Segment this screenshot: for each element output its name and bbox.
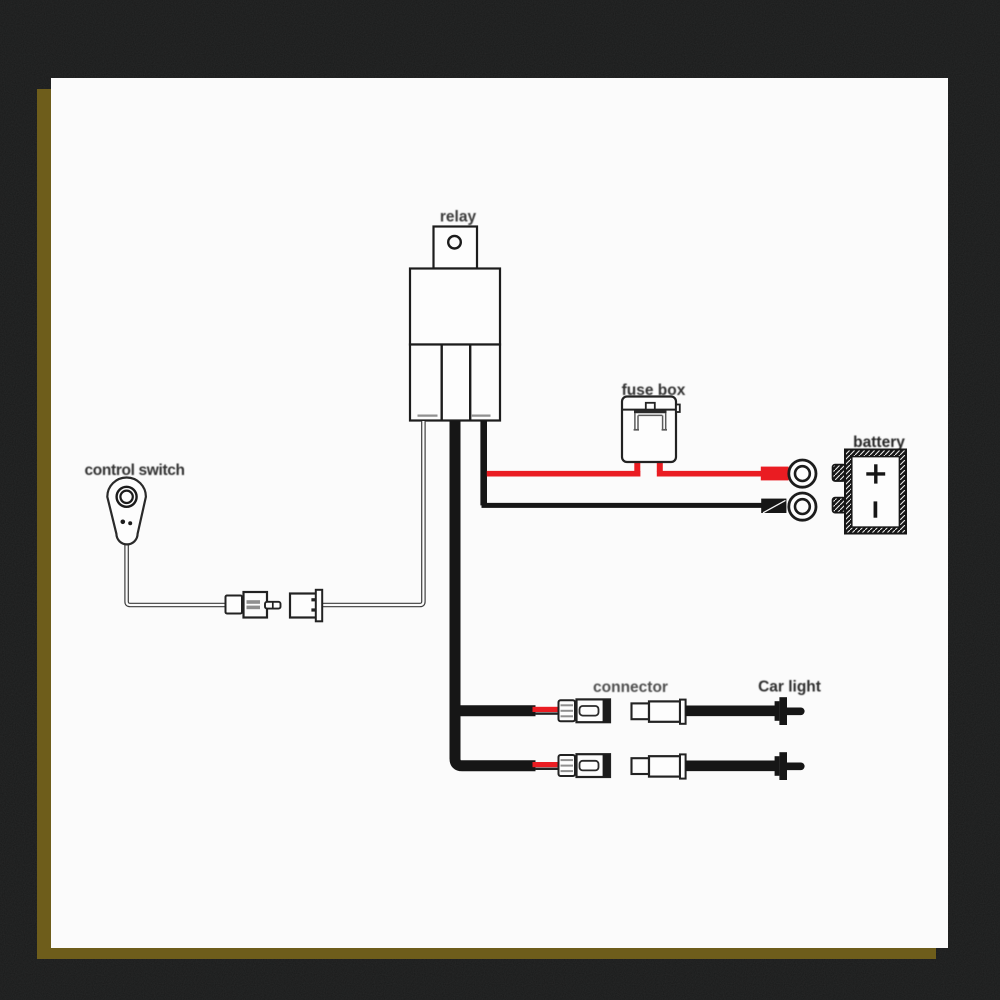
ring terminal positive xyxy=(789,460,816,487)
wire: relay pin3 vertical (black) xyxy=(482,421,763,505)
relay label xyxy=(440,209,477,226)
fuse box body xyxy=(622,397,680,463)
control switch body xyxy=(107,477,146,544)
car light stud row1 xyxy=(775,697,801,725)
fuse box pin legs (red) xyxy=(637,461,660,472)
battery terminal tab negative xyxy=(833,498,846,513)
wire: relay pin1 to switch connector (grey hollow) xyxy=(323,421,424,605)
battery minus sign xyxy=(874,501,878,517)
lamp connector male row2 xyxy=(559,754,611,777)
wire: relay pin2 trunk to light leads (black thick) xyxy=(455,421,536,766)
lamp connector female row1 xyxy=(632,700,686,724)
fuse box label xyxy=(622,382,686,399)
ring terminal negative xyxy=(789,493,816,520)
wire: lamp lead row1 (black) xyxy=(686,705,776,716)
fuse element xyxy=(634,412,667,430)
car light stud row2 xyxy=(775,752,801,780)
red ring terminal crimp xyxy=(761,467,789,481)
control switch label xyxy=(85,462,185,479)
svg-text:control switch: control switch xyxy=(85,462,185,479)
svg-text:relay: relay xyxy=(440,209,477,226)
relay body xyxy=(410,269,500,345)
battery label xyxy=(853,434,905,451)
wire: red stub row1 xyxy=(533,707,561,715)
svg-text:connector: connector xyxy=(593,679,668,696)
black ring terminal crimp xyxy=(761,499,786,513)
switch connector female socket xyxy=(290,590,322,622)
wire: red fuse box to battery terminal xyxy=(657,471,789,477)
wire: lamp lead row2 (black) xyxy=(686,760,776,771)
wire: red relay to fuse box xyxy=(487,471,641,477)
lamp connector male row1 xyxy=(559,699,611,722)
relay socket xyxy=(410,345,500,421)
battery body xyxy=(845,450,906,534)
battery terminal tab positive xyxy=(833,465,846,481)
switch connector male plug xyxy=(226,592,281,618)
svg-text:Car light: Car light xyxy=(758,679,821,696)
battery plus sign xyxy=(866,464,885,483)
wire: control switch lead (grey hollow) xyxy=(127,543,226,606)
lamp connector female row2 xyxy=(632,754,686,778)
wire: red stub row2 xyxy=(533,762,561,770)
relay mounting tab xyxy=(434,227,478,269)
connector label xyxy=(593,679,668,696)
svg-text:battery: battery xyxy=(853,434,905,451)
Car light label xyxy=(758,679,821,696)
